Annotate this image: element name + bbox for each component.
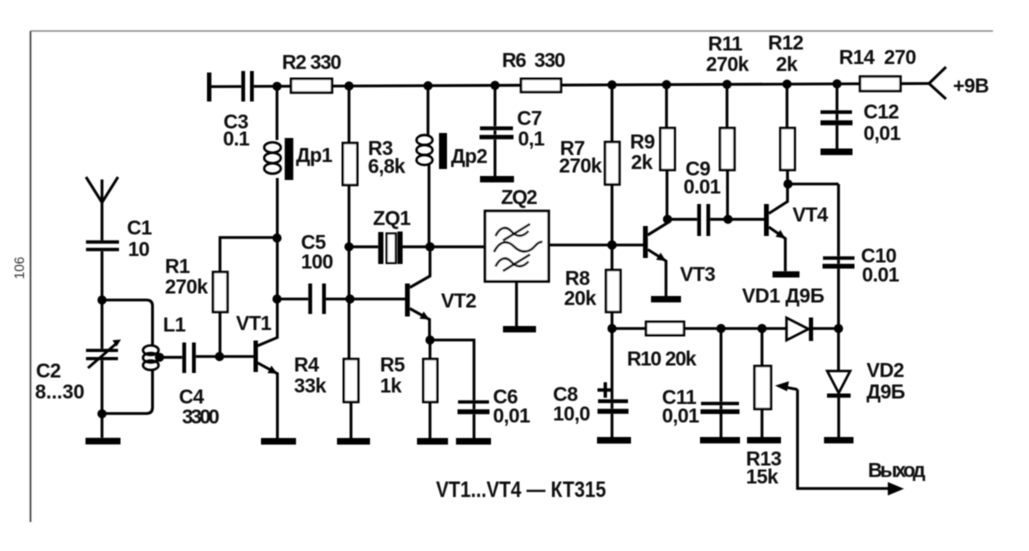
svg-text:R4: R4 [294, 355, 320, 377]
svg-text:C2: C2 [36, 361, 61, 383]
svg-text:100: 100 [301, 252, 333, 274]
svg-text:3300: 3300 [182, 407, 219, 429]
svg-text:R12: R12 [768, 33, 804, 55]
svg-text:C12: C12 [864, 102, 900, 124]
svg-text:Выход: Выход [868, 460, 926, 482]
svg-text:VD1 Д9Б: VD1 Д9Б [742, 286, 824, 308]
svg-text:Др1: Др1 [296, 145, 332, 167]
svg-text:10: 10 [128, 239, 150, 261]
svg-text:R8: R8 [565, 268, 590, 290]
svg-text:0,01: 0,01 [493, 406, 530, 428]
svg-text:270k: 270k [706, 54, 750, 76]
svg-text:VT4: VT4 [793, 205, 830, 227]
svg-text:R9: R9 [630, 132, 655, 154]
svg-text:R2 330: R2 330 [282, 52, 341, 74]
svg-text:R6 330: R6 330 [502, 50, 565, 72]
svg-text:270k: 270k [559, 156, 603, 178]
svg-text:R14: R14 [839, 47, 876, 69]
svg-text:0,1: 0,1 [518, 129, 545, 151]
svg-text:VT1...VT4 — КТ315: VT1...VT4 — КТ315 [436, 477, 606, 502]
svg-text:VD2: VD2 [867, 360, 905, 382]
svg-text:33k: 33k [294, 376, 327, 398]
svg-text:1k: 1k [380, 376, 403, 398]
svg-text:Д9Б: Д9Б [867, 382, 905, 404]
svg-text:Др2: Др2 [451, 146, 487, 168]
svg-text:ZQ1: ZQ1 [373, 208, 411, 230]
svg-text:0.01: 0.01 [684, 177, 721, 199]
svg-text:0.1: 0.1 [223, 129, 250, 151]
svg-text:+9В: +9В [953, 76, 989, 98]
svg-text:2k: 2k [631, 152, 654, 174]
svg-text:L1: L1 [163, 315, 186, 337]
svg-text:106: 106 [12, 257, 27, 280]
svg-text:C1: C1 [127, 218, 152, 240]
svg-text:VT3: VT3 [680, 264, 716, 286]
svg-text:270k: 270k [165, 277, 209, 299]
svg-text:2k: 2k [776, 54, 799, 76]
svg-text:10,0: 10,0 [553, 404, 590, 426]
svg-text:270: 270 [884, 47, 916, 69]
svg-text:6,8k: 6,8k [368, 156, 406, 178]
svg-text:20k: 20k [564, 288, 597, 310]
svg-text:15k: 15k [746, 467, 779, 489]
svg-text:C4: C4 [179, 387, 205, 409]
svg-text:VT1: VT1 [236, 313, 272, 335]
svg-text:0,01: 0,01 [662, 406, 699, 428]
svg-text:0,01: 0,01 [864, 123, 901, 145]
svg-text:VT2: VT2 [441, 291, 477, 313]
svg-text:C7: C7 [517, 108, 542, 130]
svg-text:0.01: 0.01 [862, 265, 899, 287]
svg-text:R10 20k: R10 20k [627, 349, 697, 371]
svg-text:R1: R1 [165, 256, 190, 278]
svg-text:R5: R5 [380, 355, 405, 377]
svg-text:ZQ2: ZQ2 [501, 187, 537, 209]
svg-text:R11: R11 [708, 34, 742, 56]
svg-text:8...30: 8...30 [35, 382, 84, 404]
